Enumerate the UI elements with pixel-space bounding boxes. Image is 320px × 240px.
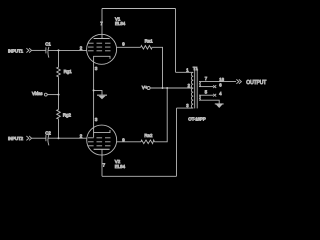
wire top horizontal (V1 plate to transformer) (102, 8, 176, 10)
resistor Ra2 (141, 133, 155, 144)
resistor Rg1 (57, 67, 73, 77)
svg-text:16: 16 (219, 77, 224, 82)
svg-text:2: 2 (188, 83, 191, 88)
svg-text:2: 2 (80, 133, 83, 138)
svg-text:7: 7 (103, 163, 106, 168)
svg-text:C1: C1 (45, 42, 51, 47)
wire primary pin 1 stub (176, 71, 194, 73)
svg-text:Vbias: Vbias (32, 91, 42, 96)
connector J3 output chevrons (236, 79, 239, 83)
wire C1 to V1 grid (48, 49, 87, 51)
op... tube V1 EL84 envelope (87, 34, 117, 64)
tube V1 grid g1 (88, 50, 111, 52)
tube V1 grid g2 (88, 46, 111, 48)
wire primary pin 3 stub (177, 107, 194, 109)
tube V2 plate bar (94, 148, 110, 150)
wire V1 screen to Ra1 (116, 46, 140, 48)
terminal V+ circle (147, 87, 150, 90)
wire input2 to C2 (32, 137, 46, 139)
wire C2 to V2 grid (48, 137, 87, 139)
svg-text:Ra2: Ra2 (144, 133, 153, 138)
svg-text:2: 2 (80, 45, 83, 50)
wire input1 to C1 (32, 49, 46, 51)
wire right vertical down to primary pin 1 (175, 9, 177, 73)
node Ra1/V+ junction (162, 87, 164, 89)
wire common cathode bus (93, 59, 95, 133)
svg-text:Rg2: Rg2 (63, 113, 72, 118)
tube V1 plate bar (94, 38, 110, 40)
tube V2 cathode (94, 130, 110, 137)
wire V+ rail to primary center tap (150, 87, 193, 89)
tube V2 grid g3 (88, 145, 111, 147)
connector J1 input chevrons (26, 48, 29, 52)
svg-text:EL84: EL84 (115, 164, 126, 169)
tube V1 grid g3 (88, 42, 111, 44)
wire right vertical up to primary pin 3 (176, 108, 178, 176)
terminal Vbias circle (44, 93, 47, 96)
resistor Rg2 (57, 110, 72, 120)
wire secondary pin 6 stub (unused) (199, 86, 213, 88)
svg-text:1: 1 (186, 68, 189, 73)
svg-text:3: 3 (186, 103, 189, 108)
wire Rg2 to input2 row (58, 120, 60, 139)
svg-text:4: 4 (219, 91, 222, 96)
capacitor C1 (45, 42, 51, 58)
node grid1/Rg1 junction (58, 49, 60, 51)
svg-text:OT-16PP: OT-16PP (188, 116, 206, 121)
no-connect X pin 6 (213, 85, 216, 88)
svg-text:5: 5 (205, 89, 208, 94)
node grid2/Rg2 junction (58, 137, 60, 139)
no-connect X pin 5 (213, 94, 216, 97)
wire cathode to ground (94, 90, 102, 94)
svg-text:C2: C2 (45, 130, 51, 135)
svg-text:3: 3 (95, 117, 98, 122)
wire Rg1 to Vbias node (58, 77, 60, 94)
svg-text:Rg1: Rg1 (64, 69, 73, 74)
node Ra2/V+ junction (166, 87, 168, 89)
wire secondary pin 5 stub (unused) (199, 94, 213, 96)
transformer T1 secondary upper winding (199, 82, 200, 87)
node cathode/ground junction (93, 89, 95, 91)
wire Ra1 to V+ rail (153, 47, 163, 88)
node Vbias junction (58, 94, 60, 96)
svg-text:OUTPUT: OUTPUT (246, 80, 266, 86)
transformer T1 primary winding (191, 72, 193, 108)
connector J2 input chevrons (26, 136, 29, 140)
resistor Ra1 (141, 38, 154, 49)
tube V2 grid g2 (88, 141, 111, 143)
svg-text:7: 7 (100, 21, 103, 26)
wire bus to Rg2 (58, 95, 60, 110)
wire bottom horizontal (V2 plate to transformer) (102, 175, 177, 177)
svg-text:T1: T1 (193, 66, 199, 71)
svg-text:3: 3 (95, 66, 98, 71)
tube V2 grid g1 (88, 137, 111, 139)
wire secondary 16 ohm tap to output (199, 81, 236, 83)
wire V2 plate lead (101, 149, 103, 176)
svg-text:INPUT2: INPUT2 (8, 136, 24, 141)
svg-text:9: 9 (122, 42, 125, 47)
tube V2 EL84 envelope (87, 125, 117, 155)
svg-text:EL84: EL84 (115, 21, 126, 26)
ground cathode (97, 95, 107, 100)
wire secondary common to ground (199, 100, 219, 103)
svg-text:Ra1: Ra1 (145, 38, 154, 43)
transformer T1 core (194, 68, 196, 109)
wire V1 plate lead (101, 9, 103, 39)
ground secondary (215, 103, 224, 108)
transformer T1 secondary lower winding (199, 95, 200, 100)
wire Vbias to bus (47, 94, 58, 96)
wire Ra2 to V+ rail (154, 88, 167, 142)
capacitor C2 (45, 130, 51, 145)
tube V1 cathode (94, 56, 110, 59)
wire junction down to Rg1 (58, 50, 60, 67)
svg-text:6: 6 (219, 83, 222, 88)
svg-text:INPUT1: INPUT1 (8, 48, 24, 53)
wire V2 screen to Ra2 (116, 141, 140, 143)
svg-text:7: 7 (205, 76, 208, 81)
